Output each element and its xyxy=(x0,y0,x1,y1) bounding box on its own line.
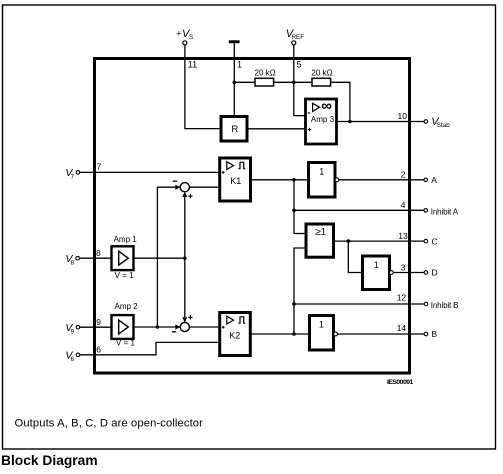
wire V7 to K1 xyxy=(80,171,220,173)
svg-text:Amp 1: Amp 1 xyxy=(114,235,138,244)
wire K2 bus up to OR gate input 2 xyxy=(294,248,306,334)
terminal +VS xyxy=(183,41,187,45)
wire OR output to pin 13 xyxy=(334,240,424,242)
junction C/D branch xyxy=(347,239,351,243)
op-amp Amp3 xyxy=(306,97,337,144)
amplifier Amp1 xyxy=(112,235,138,280)
wire gate B to pin 14 xyxy=(337,333,424,335)
buffer gate A xyxy=(309,163,336,198)
terminal V9 xyxy=(76,325,80,329)
terminal B xyxy=(424,332,428,336)
wire Inhibit A xyxy=(294,209,424,211)
junction Inhibit A xyxy=(292,209,296,213)
terminal V6 xyxy=(76,353,80,357)
junction feedback resistor / Amp3 output xyxy=(348,120,352,124)
terminal VREF xyxy=(292,41,296,45)
wire pin1 to R top xyxy=(233,43,235,117)
bubble gate A output xyxy=(335,178,339,182)
svg-text:D: D xyxy=(432,268,438,278)
plus sign at S2 xyxy=(188,315,192,319)
svg-text:12: 12 xyxy=(397,293,407,303)
svg-text:R: R xyxy=(231,124,238,135)
node summing point S1 xyxy=(180,183,189,192)
label V6 xyxy=(65,350,74,364)
svg-text:Stab: Stab xyxy=(437,122,450,129)
wire Amp3 output to pin 10 / VStab xyxy=(337,121,425,123)
svg-text:20 kΩ: 20 kΩ xyxy=(311,69,332,78)
label VStab xyxy=(431,116,450,129)
OR gate GE1 xyxy=(306,224,334,257)
svg-text:14: 14 xyxy=(397,323,407,333)
arrow into S1 left xyxy=(175,185,180,190)
svg-text:9: 9 xyxy=(71,328,75,335)
terminal C xyxy=(424,239,428,243)
svg-text:Inhibit B: Inhibit B xyxy=(431,301,459,310)
svg-text:C: C xyxy=(432,236,438,246)
svg-text:Outputs A, B, C, D are open-co: Outputs A, B, C, D are open-collector xyxy=(15,417,204,429)
arrow into S2 left xyxy=(175,325,180,330)
amplifier Amp2 xyxy=(112,302,139,348)
label V8 xyxy=(65,253,74,267)
svg-text:9: 9 xyxy=(96,317,101,327)
svg-text:2: 2 xyxy=(401,170,406,180)
plus sign at S1 xyxy=(188,194,192,198)
minus sign at S2 xyxy=(172,331,176,333)
terminal V8 xyxy=(76,256,80,260)
svg-text:7: 7 xyxy=(71,174,75,181)
svg-text:13: 13 xyxy=(398,231,408,241)
svg-text:Amp 2: Amp 2 xyxy=(115,302,139,311)
svg-text:5: 5 xyxy=(297,60,302,70)
wire Amp1 output vertical to S2 top xyxy=(184,258,186,317)
terminal D xyxy=(424,271,428,275)
junction Amp2 output xyxy=(156,325,160,329)
svg-text:S: S xyxy=(189,34,193,41)
svg-text:8: 8 xyxy=(96,248,101,258)
wire +VS to R input xyxy=(185,45,221,129)
comparator K1 xyxy=(220,158,251,201)
label V7 xyxy=(65,167,74,181)
wire VREF to Amp3 minus input xyxy=(294,45,306,116)
svg-text:∞: ∞ xyxy=(321,97,332,114)
junction K1 output xyxy=(292,178,296,182)
arrow into S1 bottom xyxy=(182,192,187,197)
svg-text:K2: K2 xyxy=(229,330,240,340)
wire K1 output to gate A xyxy=(251,179,309,181)
svg-text:V = 1: V = 1 xyxy=(116,339,135,348)
svg-text:6: 6 xyxy=(71,356,75,363)
svg-text:20 kΩ: 20 kΩ xyxy=(255,69,276,78)
label V9 xyxy=(65,322,74,336)
terminal Inhibit A xyxy=(424,209,428,213)
svg-text:Block Diagram: Block Diagram xyxy=(1,453,98,468)
minus sign at S1 xyxy=(173,180,177,182)
junction pin1/resistor xyxy=(233,81,237,85)
svg-text:7: 7 xyxy=(97,162,102,172)
svg-text:K1: K1 xyxy=(230,176,241,186)
comparator K2 xyxy=(220,313,251,356)
resistor R1 box xyxy=(221,117,247,142)
svg-text:A: A xyxy=(431,175,437,185)
svg-text:REF: REF xyxy=(292,34,305,41)
arrow into S2 top xyxy=(182,317,187,322)
wire K1 bus down to OR gate input 1 xyxy=(294,180,306,234)
svg-text:Amp 3: Amp 3 xyxy=(311,115,335,124)
resistor 20k (left) xyxy=(255,69,276,86)
svg-text:IES00091: IES00091 xyxy=(387,379,414,386)
wire gate A to pin 2 xyxy=(339,179,424,181)
svg-text:+: + xyxy=(176,28,181,38)
svg-text:8: 8 xyxy=(71,259,75,266)
wire node S2 to K2 input 1 xyxy=(189,326,220,328)
resistor 20k (right) xyxy=(311,69,332,86)
svg-text:B: B xyxy=(431,329,437,339)
svg-text:11: 11 xyxy=(188,60,197,70)
terminal Inhibit B xyxy=(424,302,428,306)
wire V9 to Amp2 xyxy=(80,326,112,328)
wire Amp1 output xyxy=(134,257,185,259)
external bar symbol on pin 1 xyxy=(229,40,240,43)
bubble gate D output xyxy=(390,271,394,275)
wire node S1 to K1 input 2 xyxy=(189,186,220,188)
wire Inhibit B xyxy=(294,303,424,305)
buffer gate B xyxy=(310,316,334,351)
terminal A xyxy=(424,178,428,182)
junction Amp1 output xyxy=(183,256,187,260)
svg-text:10: 10 xyxy=(398,111,408,121)
inverter gate D xyxy=(363,256,390,290)
wire V6 to K2 input 2 xyxy=(80,342,220,354)
svg-text:Inhibit A: Inhibit A xyxy=(431,207,459,216)
svg-text:4: 4 xyxy=(401,200,406,210)
IC boundary box xyxy=(95,59,410,374)
svg-text:1: 1 xyxy=(237,60,242,70)
svg-text:V = 1: V = 1 xyxy=(115,271,134,280)
wire Amp2 output to node S2 xyxy=(134,326,177,328)
svg-text:6: 6 xyxy=(96,345,101,355)
junction K2 output xyxy=(292,332,296,336)
svg-text:1: 1 xyxy=(374,260,379,270)
wire branch to inverter D xyxy=(348,241,362,272)
label +VS xyxy=(176,28,193,41)
junction Inhibit B xyxy=(292,302,296,306)
svg-text:3: 3 xyxy=(401,262,406,272)
wire resistor chain xyxy=(234,82,350,121)
wire gate D to pin 3 xyxy=(393,272,424,274)
svg-text:1: 1 xyxy=(319,320,324,330)
node summing point S2 xyxy=(180,322,189,331)
junction pin5/resistor xyxy=(292,81,296,85)
wire K2 output to gate B xyxy=(250,333,309,335)
wire Amp2 feedback vertical to S1 xyxy=(157,187,176,327)
svg-text:1: 1 xyxy=(319,166,324,176)
wire R to Amp3 plus input xyxy=(247,128,306,130)
bubble gate B output xyxy=(334,332,338,336)
terminal VStab xyxy=(424,120,428,124)
terminal V7 xyxy=(76,171,80,175)
svg-text:≥1: ≥1 xyxy=(315,227,326,238)
wire V8 to Amp1 xyxy=(80,257,112,259)
label VREF xyxy=(286,28,304,41)
wire Amp1 output vertical to S1 bottom xyxy=(184,197,186,259)
